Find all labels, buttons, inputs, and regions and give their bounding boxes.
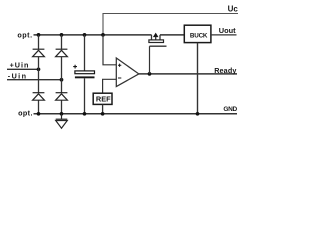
node junction ground rail / capacitor — [83, 112, 87, 116]
wire ground rail — [34, 113, 238, 115]
wire diode column 2 vertical — [61, 35, 63, 114]
node junction top rail / capacitor — [83, 33, 87, 37]
wire -Uin line — [7, 79, 62, 81]
diode D1 upper column 1 — [33, 49, 45, 57]
wire riser to comparator plus input — [103, 35, 116, 65]
op-amp U1 comparator — [116, 58, 139, 87]
node junction output / gate lead — [148, 72, 152, 76]
wire REF to ground rail — [102, 104, 104, 113]
transistor Q1 mosfet — [149, 33, 167, 47]
box BUCK converter — [184, 25, 211, 42]
svg-text:+Uin: +Uin — [10, 60, 30, 69]
node junction ground rail / column 1 — [37, 112, 41, 116]
node junction top rail / diode column 1 — [37, 33, 41, 37]
node junction top rail / Uc riser — [101, 33, 105, 37]
node junction ground rail / BUCK pin — [196, 112, 200, 116]
svg-text:opt.: opt. — [18, 109, 33, 118]
diode D2 upper column 2 — [56, 49, 68, 57]
label capacitor plus sign — [73, 65, 77, 69]
label minus input sign — [118, 77, 121, 79]
node junction ground rail / column 2 — [60, 112, 64, 116]
diode D3 lower column 1 — [33, 93, 45, 101]
wire BUCK output to Uout — [211, 34, 237, 36]
wire Uc line — [103, 14, 238, 35]
diode D4 lower column 2 — [56, 93, 68, 101]
svg-text:Uout: Uout — [219, 26, 236, 35]
wire REF to comparator minus input — [103, 79, 117, 93]
capacitor C1 polarized — [75, 35, 95, 114]
wire gate lead down to output junction — [149, 46, 151, 74]
svg-text:opt.: opt. — [17, 31, 32, 40]
wire top rail right of mosfet — [160, 34, 185, 36]
node junction -Uin / diode column 2 — [60, 78, 64, 82]
wire +Uin line — [7, 68, 39, 70]
box REF reference — [93, 93, 112, 104]
node junction top rail / diode column 2 — [60, 33, 64, 37]
svg-text:GND: GND — [223, 106, 237, 113]
wire top rail — [34, 34, 152, 36]
svg-text:BUCK: BUCK — [190, 32, 208, 39]
wire diode column 1 vertical — [38, 35, 40, 114]
wire BUCK ground pin — [197, 43, 199, 114]
diode D5 suppressor below ground rail — [56, 114, 68, 128]
node junction +Uin / diode column 1 — [37, 67, 41, 71]
wire comparator output / Ready line — [139, 73, 237, 75]
svg-text:Uc: Uc — [228, 5, 239, 14]
svg-text:Ready: Ready — [214, 66, 236, 75]
node junction ground rail / REF — [101, 112, 105, 116]
label plus input sign — [118, 64, 121, 67]
svg-text:REF: REF — [96, 95, 111, 104]
